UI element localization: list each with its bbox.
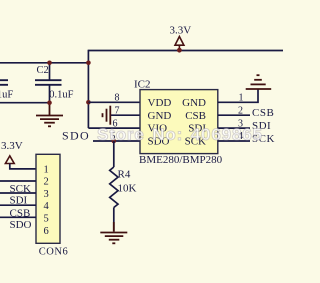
svg-text:5: 5 xyxy=(44,214,49,225)
junction dot (pin8 tee) xyxy=(86,100,91,105)
wire CON6 pin5 SDO xyxy=(0,216,36,218)
junction dot (SDO / R4) xyxy=(112,139,117,144)
connector CON6 box xyxy=(36,154,68,257)
wire pin5 SDO xyxy=(93,140,140,142)
svg-text:GND: GND xyxy=(148,110,172,122)
svg-text:8: 8 xyxy=(115,93,120,104)
svg-text:SDO: SDO xyxy=(62,129,90,143)
svg-text:CSB: CSB xyxy=(185,110,206,122)
wire pin4 SCK xyxy=(218,140,250,142)
svg-text:SDO: SDO xyxy=(10,219,32,231)
ground under C2 xyxy=(36,103,63,127)
wire pin1 GND to inverted ground xyxy=(218,90,258,103)
junction dot (3.3V on rail) xyxy=(177,48,182,53)
svg-text:6: 6 xyxy=(44,226,49,237)
svg-text:7: 7 xyxy=(115,105,120,116)
power 3.3V (top) xyxy=(170,25,192,51)
ground (rotated) at pin7 xyxy=(103,106,111,125)
resistor R4 xyxy=(110,141,137,232)
junction dot (C2 bottom) xyxy=(47,100,52,105)
svg-text:BME280/BMP280: BME280/BMP280 xyxy=(139,154,223,166)
wire pin6 VIO xyxy=(88,127,140,129)
svg-text:3: 3 xyxy=(44,189,49,200)
wire pin7 GND stub xyxy=(110,114,140,116)
wire pin3 SDI xyxy=(218,127,250,129)
svg-text:3.3V: 3.3V xyxy=(1,140,23,152)
svg-text:0.1uF: 0.1uF xyxy=(0,90,13,101)
svg-text:C2: C2 xyxy=(37,65,49,76)
wire CON6 pin3 SDI xyxy=(0,192,36,194)
wire CON6 pin4 CSB xyxy=(0,204,36,206)
svg-text:GND: GND xyxy=(182,97,206,109)
wire left rail to caps tops xyxy=(0,62,88,64)
capacitor C2 xyxy=(35,63,74,103)
wire vertical from rail down to VIO xyxy=(87,50,89,128)
junction dot (C2 top) xyxy=(47,61,52,66)
svg-text:IC2: IC2 xyxy=(134,79,151,91)
svg-text:0.1uF: 0.1uF xyxy=(49,90,73,101)
svg-text:2: 2 xyxy=(44,177,49,188)
svg-text:3.3V: 3.3V xyxy=(170,25,192,37)
op IC2 component box xyxy=(134,79,223,166)
svg-text:VDD: VDD xyxy=(148,97,172,109)
wire pin8 VDD xyxy=(88,101,140,103)
wire bottom cap rail to ground xyxy=(0,102,50,104)
svg-text:R4: R4 xyxy=(118,169,131,181)
svg-text:4: 4 xyxy=(44,201,50,212)
junction dot (left rail / vertical) xyxy=(86,61,91,66)
wire pin2 CSB xyxy=(218,114,250,116)
svg-text:CON6: CON6 xyxy=(39,247,68,258)
power 3.3V (left, CON6) xyxy=(1,140,36,169)
svg-text:10K: 10K xyxy=(118,182,137,194)
wire CON6 pin2 SCK xyxy=(0,180,36,182)
ground under R4 xyxy=(100,222,127,243)
ground (inverted, top right) xyxy=(246,75,272,89)
svg-text:CSB: CSB xyxy=(252,107,274,119)
svg-text:Store No: 4069865: Store No: 4069865 xyxy=(97,125,263,144)
capacitor C1 (left, clipped) xyxy=(0,63,13,103)
wire top 3.3V rail xyxy=(88,50,283,52)
svg-text:1: 1 xyxy=(44,164,49,175)
